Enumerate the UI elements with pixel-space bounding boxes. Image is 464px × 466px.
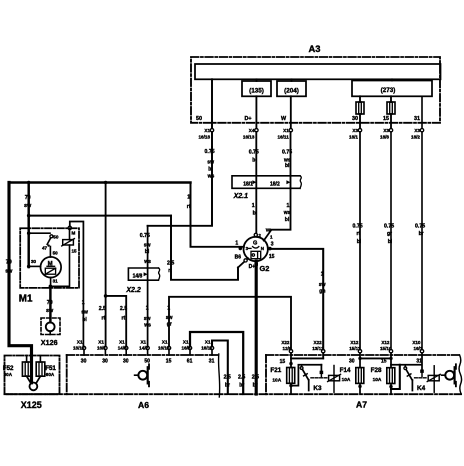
svg-text:rt: rt [187, 204, 191, 210]
svg-text:18/12: 18/12 [73, 345, 85, 350]
solenoid coil return wire [50, 245, 69, 286]
svg-text:A7: A7 [356, 400, 367, 410]
svg-text:16/18: 16/18 [199, 135, 211, 140]
ground connector X126 [41, 318, 60, 347]
pin X1 16/18 of wire 50 [210, 129, 213, 132]
svg-text:X22: X22 [281, 340, 290, 345]
svg-text:X126: X126 [41, 338, 58, 347]
control unit A3 [191, 43, 441, 350]
svg-text:sw: sw [319, 282, 326, 288]
svg-text:1: 1 [146, 305, 149, 311]
svg-text:bl: bl [357, 239, 362, 245]
svg-text:15: 15 [72, 249, 78, 254]
relay K4 [391, 364, 421, 366]
svg-text:rt: rt [102, 315, 106, 321]
pin X1 18/12 [82, 346, 85, 349]
A6 left border [66, 355, 68, 394]
svg-text:br: br [239, 383, 244, 389]
svg-text:18/1: 18/1 [243, 181, 253, 187]
svg-text:0.75: 0.75 [384, 223, 394, 229]
node M1 switch feed junction [27, 231, 31, 235]
wire 31 down to A7 [421, 132, 423, 350]
wire 50 horizontal H2b from A3 to branches [148, 147, 212, 226]
svg-text:10A: 10A [342, 377, 351, 383]
svg-text:(135): (135) [249, 88, 264, 95]
svg-text:2.5: 2.5 [252, 375, 259, 381]
wire G2 terminal 3 to A7 13/12 [268, 249, 323, 350]
pin X1 16/11 [210, 346, 213, 349]
G2 bottom pin node [254, 262, 258, 265]
svg-text:A6: A6 [138, 400, 149, 410]
svg-text:1: 1 [167, 305, 170, 311]
A6 top border [67, 354, 219, 356]
svg-text:31: 31 [414, 116, 420, 122]
alternator G2 [235, 228, 275, 273]
svg-text:X10: X10 [412, 340, 421, 345]
svg-text:80A: 80A [4, 372, 13, 377]
wire 2.5 rt down to alternator feed [171, 216, 238, 280]
connector X2.2 [125, 268, 159, 294]
pin X1 16/11 of wire W [289, 129, 292, 132]
svg-text:X12: X12 [350, 340, 359, 345]
svg-text:1: 1 [82, 300, 85, 306]
wire motor bottom [50, 278, 52, 287]
svg-text:2.5: 2.5 [99, 306, 106, 312]
svg-text:30: 30 [31, 259, 37, 264]
svg-text:50: 50 [196, 116, 202, 122]
wire battery to A6 30 feed [105, 183, 107, 347]
G2 rectifier box [251, 251, 261, 258]
svg-text:rt: rt [357, 231, 361, 237]
fuse box X125 [3, 356, 60, 411]
svg-text:X1: X1 [183, 339, 189, 344]
svg-text:16/1: 16/1 [414, 346, 423, 351]
svg-text:2: 2 [258, 233, 261, 238]
bus 15 wire [360, 357, 391, 359]
svg-text:M1: M1 [19, 294, 33, 305]
svg-text:sw: sw [24, 203, 32, 209]
svg-text:X1: X1 [119, 339, 125, 344]
wire H2a battery branch [29, 215, 171, 217]
svg-text:G2: G2 [260, 264, 270, 273]
svg-text:15: 15 [166, 358, 172, 364]
wire W X2.1 to G2 W pin [271, 188, 291, 229]
svg-text:70: 70 [47, 300, 53, 306]
solenoid main contact [50, 235, 53, 238]
svg-text:sw: sw [144, 242, 151, 248]
svg-text:18/8: 18/8 [380, 135, 389, 140]
svg-text:50: 50 [53, 250, 59, 255]
svg-text:2.5: 2.5 [167, 261, 174, 267]
svg-text:14/8: 14/8 [118, 345, 127, 350]
svg-text:14/2: 14/2 [139, 345, 148, 350]
svg-text:B6: B6 [235, 255, 242, 261]
pin X1 16/1 [104, 346, 107, 349]
pin X3 18/2 of wire 31 [420, 129, 423, 132]
wire D+ X2.1 to G2 pin 2 [255, 188, 257, 233]
fuse F14 [359, 353, 361, 368]
svg-text:3: 3 [271, 242, 274, 248]
svg-text:X1: X1 [162, 339, 168, 344]
G2 pin 2 top [254, 233, 257, 236]
svg-text:G: G [253, 241, 257, 247]
fuse in (273) middle [390, 96, 392, 102]
A3 dash-dot border [191, 57, 440, 123]
svg-text:15/10: 15/10 [380, 346, 392, 351]
wire battery bus H1 [9, 181, 191, 183]
svg-text:1: 1 [321, 271, 324, 277]
pin X4 16/13 of wire D+ [255, 129, 258, 132]
wire A6 61 to ground [190, 332, 243, 394]
wire to motor terminal 30 [29, 265, 41, 267]
svg-text:rt: rt [122, 315, 126, 321]
wire A6 31 to ground [212, 341, 228, 395]
svg-text:(204): (204) [284, 88, 299, 95]
wire 70 sw left battery feed down to X125 [9, 183, 32, 383]
svg-text:2.5: 2.5 [224, 375, 231, 381]
wire 30 down to A7 [359, 132, 361, 350]
pin X22 12/8 [289, 350, 292, 353]
svg-text:16/15: 16/15 [158, 345, 170, 350]
svg-text:F14: F14 [340, 367, 351, 374]
svg-text:F21: F21 [270, 367, 281, 374]
svg-text:X1: X1 [98, 339, 104, 344]
fuse F51 [39, 356, 41, 363]
svg-text:gn: gn [319, 289, 325, 295]
svg-text:15/11: 15/11 [349, 346, 361, 351]
svg-text:13/12: 13/12 [312, 346, 324, 351]
svg-text:16/1: 16/1 [97, 345, 106, 350]
svg-text:ws: ws [207, 174, 215, 180]
wire stub bar to (204) [291, 79, 293, 81]
wire 70 sw starter ground out [49, 286, 51, 322]
svg-text:X2.1: X2.1 [233, 193, 249, 200]
svg-text:ws: ws [143, 259, 151, 265]
svg-text:D+: D+ [249, 264, 256, 270]
starter motor M1 [19, 226, 79, 322]
svg-text:X1: X1 [204, 128, 210, 133]
svg-text:15: 15 [280, 359, 286, 365]
wire stub bar to (135) [256, 79, 258, 81]
svg-text:bl: bl [388, 239, 393, 245]
svg-text:31: 31 [53, 278, 59, 283]
wire 1 rt corner to G2 B+ sense [191, 183, 244, 247]
pin X12 15/10 [389, 350, 392, 353]
svg-text:sw: sw [144, 316, 151, 322]
ground rail dash-dot bottom [5, 393, 462, 395]
node H2a junction [27, 214, 31, 218]
pin X1 14/8 [125, 346, 128, 349]
A3 internal bus bar [195, 64, 441, 79]
svg-text:10A: 10A [272, 377, 281, 383]
svg-text:X22: X22 [314, 340, 323, 345]
svg-text:70: 70 [6, 260, 12, 266]
svg-text:70: 70 [25, 195, 31, 201]
svg-text:bl: bl [145, 249, 150, 255]
svg-text:sw: sw [46, 308, 54, 314]
node A6 30 branch [104, 294, 108, 298]
svg-text:X4: X4 [249, 128, 255, 133]
wire 50 from bus bar down [211, 79, 213, 128]
svg-text:16/11: 16/11 [278, 135, 290, 140]
G2 D+ pin bottom-left [244, 259, 247, 262]
svg-text:1: 1 [270, 235, 273, 240]
svg-text:A3: A3 [309, 43, 321, 54]
pin X1 16/8 [188, 346, 191, 349]
connector (204) [277, 81, 306, 96]
svg-text:sw: sw [207, 160, 214, 166]
solenoid coil [63, 240, 74, 245]
svg-text:sw: sw [166, 315, 173, 321]
pin X22 13/12 [322, 350, 325, 353]
wire F21 to 13/12 [291, 357, 323, 359]
svg-text:18/1: 18/1 [349, 135, 358, 140]
svg-text:15: 15 [269, 254, 275, 260]
svg-text:K4: K4 [417, 385, 426, 392]
svg-text:X3: X3 [414, 128, 420, 133]
svg-text:1: 1 [235, 241, 238, 247]
svg-text:bl: bl [285, 217, 290, 223]
svg-text:rt: rt [168, 268, 172, 274]
connector (135) [242, 81, 271, 96]
wire A6 15 to A7 12/8 H4 [169, 297, 291, 350]
A7 left border [265, 355, 267, 394]
svg-text:sw: sw [5, 269, 13, 275]
node motor 30 junction [27, 265, 31, 269]
svg-text:0.75: 0.75 [249, 149, 259, 155]
svg-text:0.75: 0.75 [415, 223, 425, 229]
svg-text:br: br [225, 383, 230, 389]
wire stub bar to (273) [391, 79, 393, 80]
pin X1 14/2 [146, 346, 149, 349]
node H1 junction to A6 feed [104, 181, 107, 184]
svg-text:14/8: 14/8 [133, 273, 143, 279]
M1 dash-dot box [20, 228, 79, 288]
wire M1 pin to A6 pin 18/12 [70, 222, 84, 347]
svg-text:30: 30 [349, 358, 355, 364]
wire diagonal to G2 D+ pin [238, 258, 248, 267]
svg-text:16/13: 16/13 [243, 135, 255, 140]
pin X12 15/11 [358, 350, 361, 353]
svg-text:D+: D+ [245, 116, 252, 122]
wire G2 B- ground [255, 261, 258, 394]
node motor ground junction [49, 285, 53, 289]
pin X1 16/15 [167, 346, 170, 349]
fuse F52 [26, 356, 28, 363]
fuse and relay box A7 [266, 340, 462, 410]
ground point symbol in A6 [135, 374, 139, 376]
svg-text:15: 15 [383, 116, 389, 122]
control unit A6 [67, 339, 219, 410]
G2 B+ pin left [239, 247, 243, 251]
svg-text:15: 15 [381, 358, 387, 364]
wire to solenoid switch [29, 232, 50, 234]
svg-text:60A: 60A [46, 372, 55, 377]
node H1-M1 junction [27, 181, 30, 184]
svg-text:1: 1 [252, 203, 255, 209]
wire D+ to X2.1 [255, 132, 257, 188]
svg-text:X125: X125 [21, 400, 42, 410]
fuse joint circle [30, 383, 38, 391]
A7 top border [266, 354, 459, 356]
svg-text:X2.2: X2.2 [125, 287, 141, 294]
svg-text:18/2: 18/2 [411, 135, 420, 140]
svg-text:F28: F28 [371, 367, 382, 374]
svg-text:br: br [419, 231, 424, 237]
relay K3 [291, 365, 321, 386]
svg-text:30: 30 [81, 358, 87, 364]
svg-text:30: 30 [102, 358, 108, 364]
fuse in (273) left [359, 96, 361, 102]
svg-text:18/2: 18/2 [270, 181, 280, 187]
svg-text:bl: bl [253, 211, 258, 217]
pin X10 16/1 [420, 350, 423, 353]
motor M circle [41, 257, 62, 278]
svg-text:X12: X12 [381, 340, 390, 345]
svg-text:M: M [72, 230, 76, 235]
svg-text:1: 1 [187, 194, 190, 200]
svg-text:0.75: 0.75 [353, 223, 363, 229]
fuse F28 [390, 353, 392, 368]
svg-text:2.5: 2.5 [120, 306, 127, 312]
svg-text:sw: sw [81, 310, 88, 316]
svg-text:X1: X1 [283, 128, 289, 133]
svg-text:N: N [261, 246, 264, 251]
svg-text:30: 30 [352, 116, 358, 122]
wire 31 from (273) down [421, 96, 423, 128]
G2 circle [244, 237, 268, 261]
connector X2.1 [232, 176, 301, 200]
svg-text:ws: ws [283, 210, 291, 216]
pin X3 18/8 of wire 15 [389, 129, 392, 132]
svg-text:0.75: 0.75 [140, 233, 150, 239]
wire 50 below pin [211, 132, 213, 147]
svg-text:0.75: 0.75 [282, 149, 292, 155]
wire branch to pin3 [106, 296, 127, 346]
svg-text:X1: X1 [140, 339, 146, 344]
G2 terminal 3 pin right [268, 247, 272, 251]
wire W from (204) down [290, 96, 292, 128]
pin X3 18/1 of wire 30 [358, 129, 361, 132]
svg-text:50: 50 [53, 234, 59, 239]
svg-text:X3: X3 [383, 128, 389, 133]
connector (273) [352, 81, 432, 97]
motor field winding box [45, 268, 55, 274]
wire 50 X2.2 branch down to A6 [147, 226, 149, 346]
svg-text:(273): (273) [381, 87, 396, 94]
svg-text:X3: X3 [352, 128, 358, 133]
svg-text:X1: X1 [205, 339, 211, 344]
M1 top pin circle [68, 226, 71, 229]
wire 15 down to A7 [390, 132, 392, 350]
svg-text:12/8: 12/8 [283, 346, 292, 351]
G2 W pin diagonal [264, 230, 271, 240]
svg-text:br: br [253, 383, 258, 389]
svg-text:2.5: 2.5 [238, 375, 245, 381]
solenoid coil feed wire [69, 230, 71, 240]
wire D+ from (135) down [255, 96, 257, 128]
svg-text:61: 61 [187, 358, 193, 364]
wire 70 sw to starter down [27, 183, 29, 268]
svg-text:bl: bl [252, 157, 257, 163]
ground point symbol in A7 [442, 374, 446, 376]
svg-text:30: 30 [123, 358, 129, 364]
svg-text:31: 31 [209, 358, 215, 364]
fuse F21 [290, 353, 292, 368]
svg-text:X1: X1 [77, 339, 83, 344]
wire W to X2.1 [290, 132, 292, 188]
svg-text:ws: ws [143, 322, 151, 328]
svg-text:10A: 10A [373, 377, 382, 383]
ground strap curve [219, 354, 220, 397]
A7 right border squiggle [459, 355, 461, 394]
svg-text:bl: bl [82, 317, 87, 323]
svg-text:0.75: 0.75 [205, 149, 215, 155]
svg-text:gr: gr [167, 322, 172, 328]
svg-text:W: W [266, 228, 271, 234]
svg-text:K3: K3 [313, 385, 322, 392]
svg-text:gr: gr [387, 231, 392, 237]
svg-text:1: 1 [287, 203, 290, 209]
svg-text:bl: bl [285, 163, 290, 169]
svg-text:47: 47 [42, 245, 48, 250]
